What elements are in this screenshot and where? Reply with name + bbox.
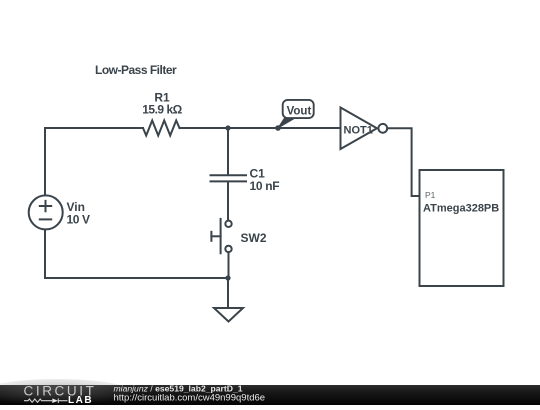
wire top rail left segment	[45, 127, 143, 129]
wire left vertical bottom (Vin bottom to bottom rail)	[44, 229, 46, 278]
svg-text:P1: P1	[425, 190, 436, 200]
node junction at R1/C1	[225, 125, 230, 130]
capacitor C1	[211, 175, 247, 220]
svg-text:ATmega328PB: ATmega328PB	[423, 203, 499, 215]
svg-text:10 V: 10 V	[67, 212, 90, 226]
ground	[214, 308, 243, 322]
resistor R1	[143, 121, 180, 136]
footer bar	[0, 385, 540, 405]
svg-text:LAB: LAB	[68, 395, 93, 405]
svg-text:10 nF: 10 nF	[250, 179, 280, 193]
wire left vertical top (Vin top to top rail)	[44, 128, 46, 195]
wire NOT1 output to P1 pin	[387, 128, 419, 196]
wire switch to bottom rail	[228, 252, 230, 278]
wire junction to capacitor	[227, 128, 229, 175]
wire resistor to NOT gate	[180, 127, 341, 129]
switch SW2	[211, 219, 231, 253]
wire junction to ground	[227, 278, 229, 308]
svg-text:SW2: SW2	[241, 231, 267, 245]
op-amp NOT1 (inverter gate)	[341, 108, 388, 150]
svg-text:Vout: Vout	[287, 105, 312, 117]
logo resistor-diode squiggle	[24, 398, 68, 403]
svg-text:http://circuitlab.com/cw49n99q: http://circuitlab.com/cw49n99q9td6e	[114, 392, 266, 403]
node junction at bottom rail	[225, 275, 230, 280]
voltage source Vin	[29, 195, 63, 229]
svg-text:NOT1: NOT1	[344, 125, 373, 137]
flag Vout	[278, 100, 314, 128]
node Vout attach dot	[275, 125, 281, 131]
svg-text:Low-Pass Filter: Low-Pass Filter	[95, 63, 177, 77]
wire bottom rail	[45, 277, 228, 279]
svg-text:15.9 kΩ: 15.9 kΩ	[142, 103, 182, 117]
IC P1 ATmega328PB box	[420, 170, 504, 286]
